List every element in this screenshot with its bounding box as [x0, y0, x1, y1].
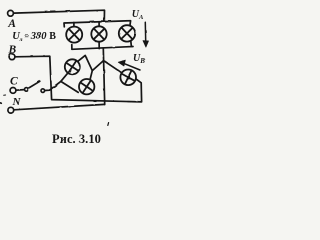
svg-text:N: N [12, 96, 22, 108]
top rail of lamp row [64, 21, 131, 27]
node junction diagonal [92, 61, 103, 71]
lamp HL1 [66, 27, 82, 43]
neutral vertical wire [103, 48, 104, 104]
svg-text:UA: UA [132, 9, 144, 21]
stray dash [4, 94, 6, 96]
svg-text:л: л [19, 37, 23, 43]
switch blade [28, 81, 40, 88]
wire N [14, 104, 105, 109]
stray tick [107, 123, 110, 126]
arrow UA [144, 22, 146, 41]
svg-text:UB: UB [133, 53, 145, 65]
svg-text:В: В [49, 31, 56, 42]
svg-text:A: A [7, 18, 16, 30]
lamp HL4 (tilted pair upper) [65, 59, 80, 74]
wire A to top rail [14, 10, 105, 21]
wire junction to right lamp [104, 61, 122, 73]
terminal C [10, 88, 16, 94]
terminal A [8, 10, 14, 16]
svg-text:=: = [24, 31, 29, 41]
wire lamp A upper lead [78, 55, 93, 70]
lamp HL2 [91, 26, 106, 41]
wire to lamp B top [90, 71, 92, 80]
arrow UB [124, 63, 141, 70]
switch contact [41, 89, 45, 93]
svg-text:380: 380 [30, 31, 48, 42]
lamp stubs [74, 22, 99, 49]
tilted rail lower [61, 81, 78, 92]
bottom rail of lamp row [72, 41, 133, 49]
wire C to switch [16, 89, 24, 92]
svg-text:Рис. 3.10: Рис. 3.10 [52, 132, 101, 146]
terminal B [9, 54, 15, 60]
lamp HL5 (tilted pair lower) [79, 79, 94, 94]
terminal N [8, 107, 14, 113]
svg-text:C: C [10, 76, 18, 88]
edge speck [0, 102, 1, 105]
switch pivot [25, 88, 29, 92]
wire switch to lamp group C [45, 73, 68, 91]
lamp HL6 (right) [120, 70, 136, 86]
lamp HL3 [119, 25, 135, 41]
wire B down and bottom-right rail to right lamp [15, 56, 141, 102]
